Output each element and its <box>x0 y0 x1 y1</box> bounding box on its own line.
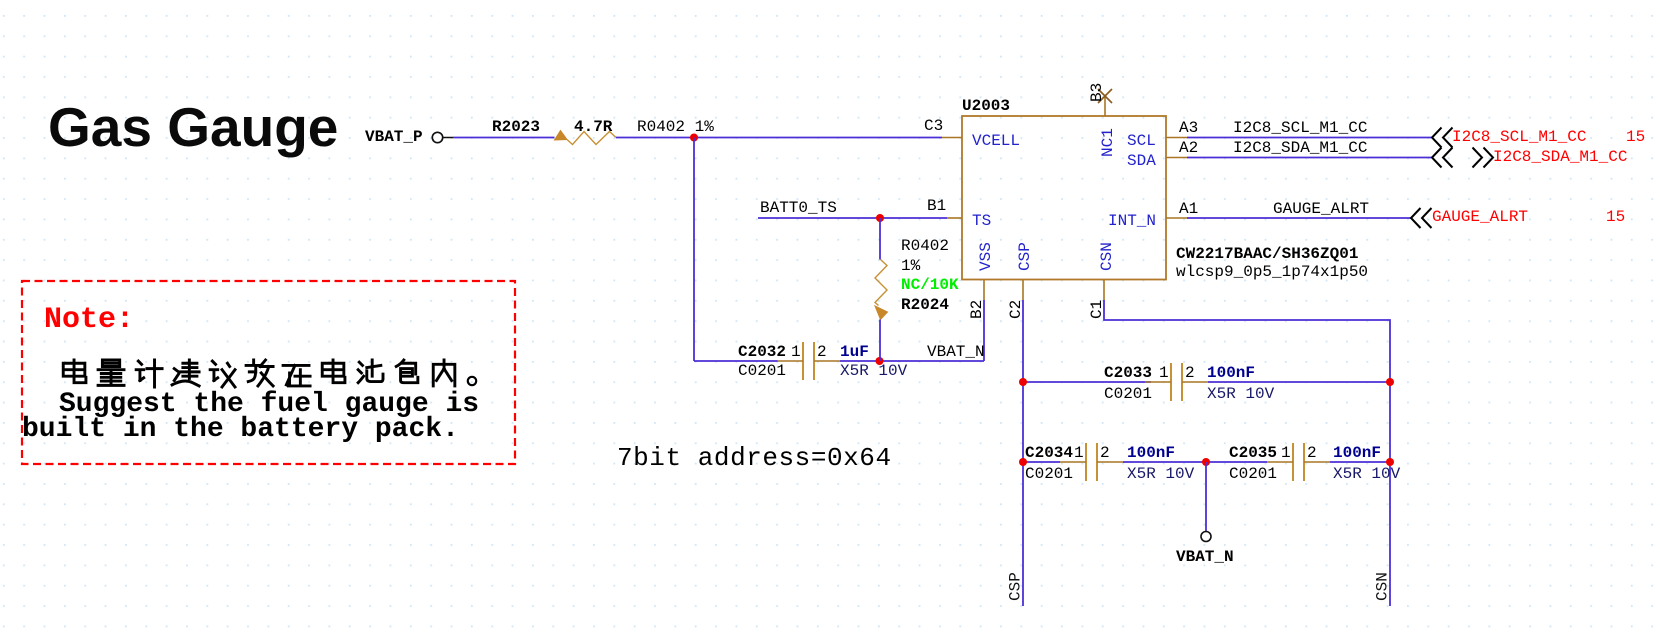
wire SDA net <box>1187 157 1432 159</box>
svg-text:A2: A2 <box>1179 139 1198 157</box>
wire C2035 row right <box>1330 461 1390 463</box>
junction node R2024 bottom / VBAT_N <box>876 357 884 365</box>
svg-text:2: 2 <box>817 343 827 361</box>
svg-text:2: 2 <box>1100 444 1110 462</box>
junction node CSP/C2033 <box>1019 378 1027 386</box>
svg-text:B3: B3 <box>1088 83 1106 102</box>
note chinese text 电量计建议放在电池包内 <box>63 360 455 387</box>
svg-text:15: 15 <box>1626 128 1645 146</box>
svg-text:15: 15 <box>1606 208 1625 226</box>
svg-text:NC1: NC1 <box>1099 128 1117 157</box>
svg-text:VSS: VSS <box>977 242 995 271</box>
wire C2035 row left <box>1206 461 1267 463</box>
off-page connector I2C8_SCL_M1_CC chevrons <box>1432 128 1453 148</box>
svg-text:CW2217BAAC/SH36ZQ01: CW2217BAAC/SH36ZQ01 <box>1176 245 1358 263</box>
svg-text:SDA: SDA <box>1127 152 1156 170</box>
wire BATT0_TS junction down to R2024 <box>879 218 881 260</box>
svg-text:VBAT_P: VBAT_P <box>365 128 423 146</box>
capacitor C2033 pin stubs <box>1145 381 1171 383</box>
capacitor C2032 plates <box>802 342 804 380</box>
svg-text:R0402 1%: R0402 1% <box>637 118 714 136</box>
svg-text:7bit address=0x64: 7bit address=0x64 <box>617 443 892 473</box>
svg-text:VCELL: VCELL <box>972 132 1020 150</box>
svg-text:CSN: CSN <box>1374 572 1392 601</box>
capacitor C2034 plates <box>1085 443 1087 481</box>
svg-text:SCL: SCL <box>1127 132 1156 150</box>
svg-text:built in the battery pack.: built in the battery pack. <box>22 414 459 445</box>
junction node VBAT wire split <box>690 134 698 142</box>
note chinese full stop <box>468 377 476 385</box>
svg-text:C0201: C0201 <box>1025 465 1073 483</box>
svg-text:I2C8_SDA_M1_CC: I2C8_SDA_M1_CC <box>1233 139 1367 157</box>
wire CSN net from C1 pin <box>1104 300 1390 606</box>
port VBAT_N circle <box>1201 532 1211 542</box>
svg-text:100nF: 100nF <box>1207 364 1255 382</box>
svg-text:1%: 1% <box>901 257 921 275</box>
capacitor C2032 pin stubs <box>777 360 803 362</box>
svg-text:wlcsp9_0p5_1p74x1p50: wlcsp9_0p5_1p74x1p50 <box>1176 263 1368 281</box>
port VBAT_P stub <box>443 137 453 139</box>
wire SCL net <box>1187 137 1432 139</box>
svg-text:A1: A1 <box>1179 200 1198 218</box>
wire GAUGE ALRT net <box>1187 217 1411 219</box>
U2003 pin C2 stub (CSP) <box>1022 280 1024 301</box>
svg-text:R2024: R2024 <box>901 296 949 314</box>
svg-text:C0201: C0201 <box>1229 465 1277 483</box>
svg-text:4.7R: 4.7R <box>574 118 613 136</box>
svg-text:Gas Gauge: Gas Gauge <box>48 96 338 158</box>
svg-text:C0201: C0201 <box>738 362 786 380</box>
wire C2032 to U2003 VSS (net VBAT_N) <box>840 360 984 362</box>
svg-text:B2: B2 <box>968 300 986 319</box>
svg-text:I2C8_SCL_M1_CC: I2C8_SCL_M1_CC <box>1452 128 1586 146</box>
svg-text:B1: B1 <box>927 197 946 215</box>
capacitor C2035 pin stubs <box>1267 461 1293 463</box>
wire junction down to C2032 <box>693 138 695 362</box>
U2003 pin B3 stub (NC1) with no-connect X <box>1104 97 1106 116</box>
svg-text:1: 1 <box>1074 444 1084 462</box>
svg-text:GAUGE_ALRT: GAUGE_ALRT <box>1432 208 1528 226</box>
port VBAT_P circle <box>432 132 442 142</box>
wire C2034 row right <box>1123 461 1206 463</box>
wire C2033 row right <box>1208 381 1390 383</box>
U2003 pin A2 stub (SDA) <box>1166 157 1187 159</box>
svg-text:1: 1 <box>1281 444 1291 462</box>
svg-text:1uF: 1uF <box>840 343 869 361</box>
capacitor C2035 plates <box>1292 443 1294 481</box>
svg-text:CSN: CSN <box>1098 242 1116 271</box>
svg-text:2: 2 <box>1307 444 1317 462</box>
svg-text:X5R 10V: X5R 10V <box>840 362 908 380</box>
U2003 pin B1 stub (TS) <box>947 217 962 219</box>
svg-text:C0201: C0201 <box>1104 385 1152 403</box>
junction node CSN/C2035 <box>1386 458 1394 466</box>
U2003 pin C3 stub (VCELL) <box>942 137 962 139</box>
svg-text:C2035: C2035 <box>1229 444 1277 462</box>
svg-text:100nF: 100nF <box>1333 444 1381 462</box>
capacitor C2034 pin stubs <box>1060 461 1086 463</box>
wire VBAT_P to R2023 <box>453 137 555 139</box>
svg-text:C2033: C2033 <box>1104 364 1152 382</box>
off-page connector GAUGE_ALRT chevrons <box>1411 208 1432 228</box>
U2003 pin B2 stub (VSS) <box>983 280 985 301</box>
junction node BATT0_TS / R2024 <box>876 214 884 222</box>
svg-text:CSP: CSP <box>1007 572 1025 601</box>
svg-text:C2032: C2032 <box>738 343 786 361</box>
svg-text:R2023: R2023 <box>492 118 540 136</box>
svg-text:X5R 10V: X5R 10V <box>1333 465 1401 483</box>
svg-text:100nF: 100nF <box>1127 444 1175 462</box>
capacitor C2033 plates <box>1170 363 1172 401</box>
U2003 pin A1 stub (INT_N) <box>1166 217 1187 219</box>
svg-text:1: 1 <box>1159 364 1169 382</box>
U2003 pin C1 stub (CSN) <box>1103 280 1105 301</box>
svg-text:BATT0_TS: BATT0_TS <box>760 199 837 217</box>
junction node CSN/C2033 <box>1386 378 1394 386</box>
svg-text:C3: C3 <box>924 117 943 135</box>
svg-text:NC/10K: NC/10K <box>901 276 959 294</box>
svg-text:X5R 10V: X5R 10V <box>1127 465 1195 483</box>
junction node VBAT_N tap <box>1202 458 1210 466</box>
wire C2033 row left <box>1023 381 1151 383</box>
junction node CSP/C2034 <box>1019 458 1027 466</box>
svg-text:I2C8_SCL_M1_CC: I2C8_SCL_M1_CC <box>1233 119 1367 137</box>
svg-text:CSP: CSP <box>1016 242 1034 271</box>
svg-text:GAUGE_ALRT: GAUGE_ALRT <box>1273 200 1369 218</box>
svg-text:X5R 10V: X5R 10V <box>1207 385 1275 403</box>
svg-text:VBAT_N: VBAT_N <box>927 343 985 361</box>
svg-text:Note:: Note: <box>44 303 134 337</box>
resistor R2023 symbol <box>555 131 568 141</box>
wire CSP net from C2 pin <box>1022 300 1024 606</box>
wire VBAT_N tap down <box>1205 462 1207 532</box>
note box border <box>22 281 515 464</box>
svg-text:2: 2 <box>1185 364 1195 382</box>
wire C2034 row left <box>1023 461 1060 463</box>
svg-text:VBAT_N: VBAT_N <box>1176 548 1234 566</box>
svg-text:TS: TS <box>972 212 991 230</box>
op-amp U2003 body (CW2217BAAC fuel gauge IC) <box>962 116 1166 280</box>
svg-text:C2034: C2034 <box>1025 444 1073 462</box>
svg-text:INT_N: INT_N <box>1108 212 1156 230</box>
resistor R2024 symbol <box>875 260 887 306</box>
svg-text:R0402: R0402 <box>901 237 949 255</box>
wire R2024 down to VBAT_N net <box>879 320 881 362</box>
svg-text:A3: A3 <box>1179 119 1198 137</box>
svg-text:U2003: U2003 <box>962 97 1010 115</box>
U2003 pin A3 stub (SCL) <box>1166 137 1187 139</box>
svg-text:1: 1 <box>791 343 801 361</box>
svg-text:I2C8_SDA_M1_CC: I2C8_SDA_M1_CC <box>1493 148 1627 166</box>
off-page connector I2C8_SDA_M1_CC chevrons <box>1432 148 1453 168</box>
wire R2023 to U2003 VCELL pin <box>616 137 942 139</box>
wire BATT0 TS to U2003 TS pin <box>758 217 947 219</box>
